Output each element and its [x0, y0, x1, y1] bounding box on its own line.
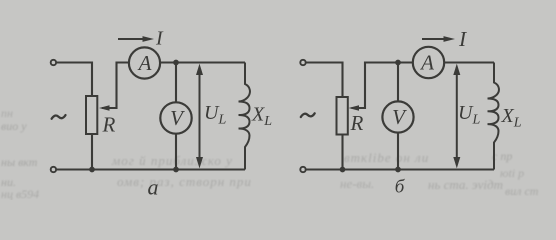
svg-text:A: A — [419, 51, 434, 75]
inductor X_L coil (circuit a) — [239, 63, 250, 170]
inductor X_L coil (circuit b) — [488, 63, 499, 170]
rheostat R body (circuit b) — [337, 97, 348, 135]
svg-text:нц в594: нц в594 — [1, 187, 39, 200]
svg-text:R: R — [102, 113, 116, 137]
svg-text:вио у: вио у — [1, 119, 27, 133]
wire: bottom rail (circuit b) — [306, 168, 494, 170]
svg-text:а: а — [148, 175, 159, 200]
wire: top terminal to rheostat top (circuit b) — [306, 63, 343, 98]
svg-text:R: R — [350, 111, 364, 135]
svg-text:вткlibе он ли: вткlibе он ли — [344, 150, 429, 165]
voltage arrow U_L (circuit a) — [199, 72, 201, 160]
svg-text:A: A — [137, 51, 152, 75]
wire: voltmeter to bottom rail (circuit a) — [175, 134, 177, 170]
svg-text:I: I — [458, 27, 467, 51]
svg-text:с пр: с пр — [492, 149, 512, 163]
wire: node to voltmeter (circuit b) — [397, 63, 399, 102]
svg-text:юti р: юti р — [500, 166, 524, 180]
svg-text:пн: пн — [1, 106, 13, 120]
wire: bottom rail (circuit a) — [56, 168, 245, 170]
rheostat R body (circuit a) — [86, 96, 97, 134]
svg-text:вил ст: вил ст — [505, 184, 539, 198]
wire: ammeter to top-right corner (circuit a) — [160, 61, 245, 63]
junction: rheostat bottom node (circuit b) — [340, 167, 346, 173]
svg-text:б: б — [395, 177, 406, 198]
svg-text:ны вкт: ны вкт — [1, 155, 38, 169]
voltmeter V (circuit a) — [160, 102, 191, 133]
wire: voltmeter to bottom rail (circuit b) — [397, 133, 399, 170]
terminal: top input terminal (circuit b) — [300, 60, 305, 65]
wire: node to voltmeter (circuit a) — [175, 63, 177, 103]
svg-text:омв; раз, створн при: омв; раз, створн при — [117, 174, 252, 189]
ammeter A (circuit a) — [129, 47, 160, 78]
AC source symbol ~ (circuit b) — [301, 113, 315, 117]
AC source symbol ~ (circuit a) — [52, 115, 66, 119]
svg-text:нь ста. эviдт: нь ста. эviдт — [428, 177, 503, 192]
current arrow I (circuit a) — [118, 38, 145, 40]
junction: voltmeter bottom node (circuit a) — [173, 167, 179, 173]
junction: voltmeter bottom node (circuit b) — [395, 167, 401, 173]
svg-text:мог й приближко у: мог й приближко у — [111, 153, 233, 168]
svg-text:не-вы.: не-вы. — [340, 176, 374, 191]
terminal: top input terminal (circuit a) — [51, 60, 56, 65]
terminal: bottom input terminal (circuit b) — [300, 167, 305, 172]
svg-text:V: V — [170, 106, 185, 130]
wire: top terminal to rheostat top (circuit a) — [56, 63, 92, 97]
terminal: bottom input terminal (circuit a) — [51, 167, 56, 172]
wire: wiper arm to ammeter (circuit a) — [102, 63, 129, 109]
svg-text:V: V — [392, 105, 407, 129]
wire: wiper arm to ammeter (circuit b) — [352, 63, 413, 109]
ammeter A (circuit b) — [413, 47, 444, 78]
current arrow I (circuit b) — [422, 38, 446, 40]
wiper arrowhead (circuit b) — [349, 105, 360, 111]
wire: ammeter to top-right corner (circuit b) — [444, 61, 494, 63]
voltage arrow U_L (circuit b) — [456, 72, 458, 160]
wire: rheostat bottom to bottom rail (circuit b) — [341, 135, 343, 170]
junction: rheostat bottom node (circuit a) — [89, 167, 95, 173]
voltmeter V (circuit b) — [382, 101, 413, 132]
junction: voltmeter top node (circuit a) — [173, 60, 179, 66]
svg-text:I: I — [155, 28, 164, 50]
junction: voltmeter top node (circuit b) — [395, 60, 401, 66]
wire: rheostat bottom to bottom rail (circuit a) — [91, 134, 93, 170]
wiper arrowhead (circuit a) — [99, 105, 110, 111]
